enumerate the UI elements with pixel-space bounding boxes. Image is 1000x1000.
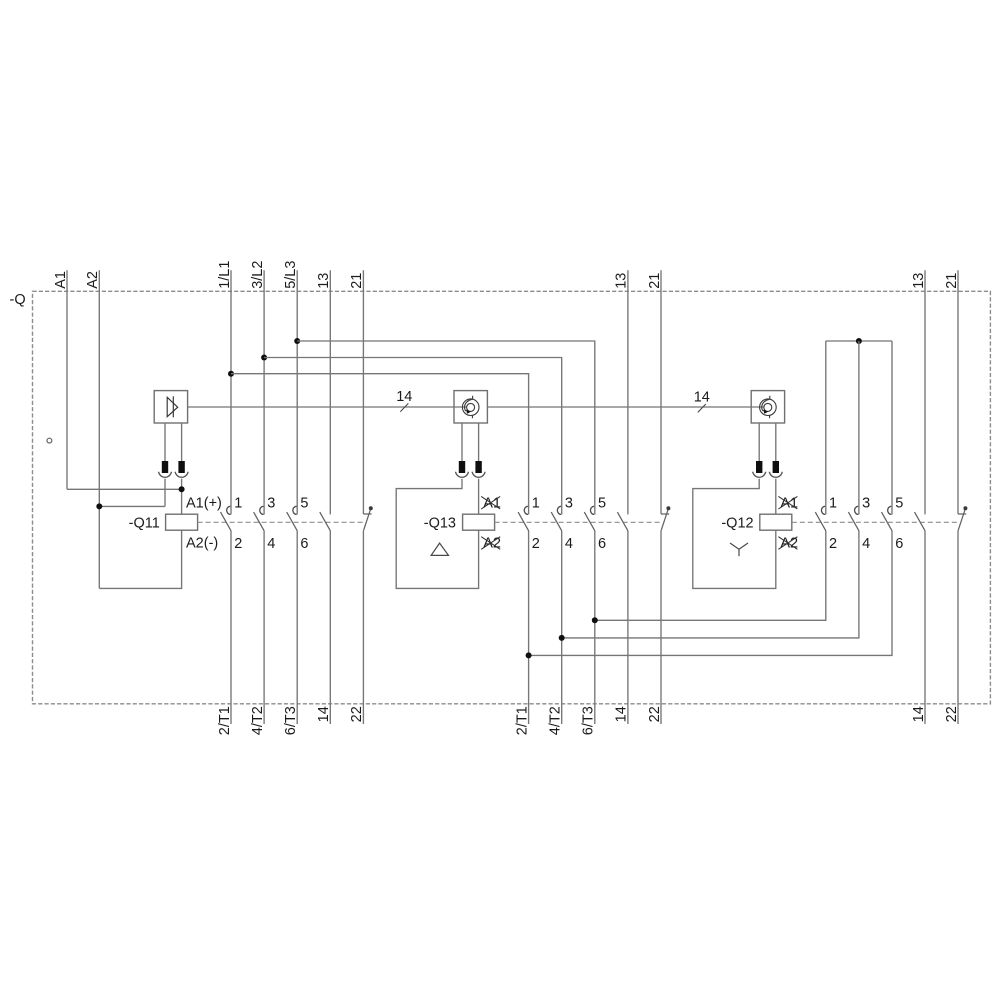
plug connector Q13 right	[475, 461, 481, 473]
Q11 main contact pole 1-2	[227, 506, 231, 514]
node junction on 1/L1	[228, 371, 234, 377]
svg-text:2: 2	[234, 536, 242, 552]
mechanical linkage Q11	[198, 521, 365, 523]
Q12 main contact pole 3-4	[855, 506, 859, 514]
node junction on A2	[96, 503, 102, 509]
Q11 bottom terminal line 14	[329, 531, 331, 724]
Q12 bottom terminal line 14	[924, 531, 926, 724]
Q13 main contact pole 1-2	[524, 506, 528, 514]
wire A2 loop around coil Q13	[396, 479, 478, 589]
plug connector Q13 left	[459, 461, 465, 473]
terminal line 13 of Q11	[329, 270, 331, 514]
Q12 main contact pole 5-6	[888, 506, 892, 514]
electronic drive symbol Q12	[760, 396, 777, 418]
wire A2 loop around coil Q12	[693, 479, 776, 589]
mechanical linkage Q12	[792, 521, 959, 523]
diode symbol	[167, 396, 178, 417]
node junction star bridge	[856, 338, 862, 344]
terminal line A1	[66, 270, 68, 489]
svg-text:1: 1	[532, 496, 540, 512]
Q13 main contact pole 3-4	[557, 506, 561, 514]
wire 14 from suppressor to Q13 coil module	[188, 406, 467, 408]
Q11 aux NC contact 21-22	[363, 513, 371, 515]
terminal line 21 of Q13	[660, 270, 662, 514]
Q12 aux NC contact 21-22	[958, 513, 966, 515]
wire A1 to coil Q13	[478, 479, 480, 515]
Q12 pole 1 top line	[825, 341, 827, 515]
node junction on 6/T3	[592, 617, 598, 623]
Q11 coil module lead right	[181, 423, 183, 461]
Q13 bottom terminal line 2/T1	[528, 531, 530, 724]
Q12 aux NO contact 13-14	[915, 512, 926, 531]
mounting point circle	[47, 438, 52, 443]
Q11 main contact pole 5-6	[293, 506, 297, 514]
svg-text:4: 4	[862, 536, 870, 552]
svg-text:1: 1	[829, 496, 837, 512]
Q11 bottom terminal line 22	[362, 531, 364, 724]
wire 5/L3 to Q13 pole 5	[297, 341, 595, 515]
terminal line 5/L3	[296, 270, 298, 514]
svg-text:14: 14	[694, 390, 710, 406]
node junction A1/coil	[179, 486, 185, 492]
svg-text:2/T1: 2/T1	[217, 706, 233, 735]
svg-text:6: 6	[598, 536, 606, 552]
svg-text:4/T2: 4/T2	[250, 706, 266, 735]
plug connector Q11 right	[178, 461, 184, 473]
wire Q12 pole 6 to 2/T1	[529, 531, 892, 656]
Q11 coil module lead left	[164, 423, 166, 461]
wire A1 to coil Q12	[775, 479, 777, 515]
terminal line 13 of Q13	[627, 270, 629, 514]
svg-text:14: 14	[396, 389, 412, 405]
svg-text:1: 1	[234, 496, 242, 512]
terminal line 1/L1	[230, 270, 232, 514]
svg-text:-Q12: -Q12	[721, 515, 753, 531]
svg-text:1/L1: 1/L1	[217, 261, 233, 289]
plug connector Q11 left	[162, 461, 168, 473]
svg-text:4/T2: 4/T2	[548, 706, 564, 735]
svg-text:21: 21	[349, 273, 365, 289]
svg-text:A2: A2	[85, 271, 101, 289]
svg-text:-Q11: -Q11	[129, 515, 160, 531]
svg-text:A1: A1	[53, 271, 69, 289]
Q12 pole 5 top line	[891, 341, 893, 515]
wire A2 loop under coil Q11	[99, 530, 181, 588]
svg-text:A1(+): A1(+)	[186, 495, 222, 511]
terminal line 21 of Q12	[957, 270, 959, 514]
svg-text:A2(-): A2(-)	[186, 536, 218, 552]
plug connector Q12 right	[773, 461, 779, 473]
Q12 coil module lead left	[758, 423, 760, 461]
Q12 pole 3 top line	[858, 341, 860, 515]
wire 3/L2 to Q13 pole 3	[264, 358, 562, 515]
surge suppressor module on Q11 coil	[154, 391, 187, 423]
svg-text:6: 6	[895, 536, 903, 552]
svg-text:2/T1: 2/T1	[514, 706, 530, 735]
node junction on 4/T2	[559, 635, 565, 641]
svg-text:14: 14	[614, 706, 630, 722]
svg-text:3: 3	[565, 496, 573, 512]
node junction on 5/L3	[294, 338, 300, 344]
plug connector Q12 left	[756, 461, 762, 473]
terminal line 21 of Q11	[362, 270, 364, 514]
svg-text:21: 21	[944, 273, 960, 289]
svg-text:5: 5	[895, 496, 903, 512]
svg-text:13: 13	[316, 273, 332, 289]
svg-text:5: 5	[300, 496, 308, 512]
svg-text:5: 5	[598, 496, 606, 512]
terminal line A2	[98, 270, 100, 588]
dashed enclosure border of assembly -Q	[33, 291, 991, 704]
Q13 main contact pole 5-6	[590, 506, 594, 514]
svg-text:22: 22	[647, 706, 663, 722]
svg-text:3: 3	[267, 496, 275, 512]
mechanical linkage Q13	[495, 521, 663, 523]
Q12 bottom terminal line 22	[957, 531, 959, 724]
wire 1/L1 to Q13 pole 1	[231, 374, 529, 515]
svg-text:22: 22	[944, 706, 960, 722]
delta symbol	[431, 543, 448, 555]
wire A1 to coil Q11	[67, 488, 182, 490]
wire Q12 pole 2 to 6/T3	[595, 531, 826, 620]
Q13 coil drive module	[454, 391, 487, 423]
node junction on 3/L2	[261, 355, 267, 361]
svg-text:3: 3	[862, 496, 870, 512]
svg-text:6: 6	[300, 536, 308, 552]
star-point bridge wire Q12	[826, 340, 892, 342]
svg-text:14: 14	[316, 706, 332, 722]
coil contactor -Q11	[166, 514, 198, 530]
svg-text:3/L2: 3/L2	[250, 261, 266, 289]
svg-text:4: 4	[565, 536, 573, 552]
svg-text:21: 21	[647, 273, 663, 289]
wire Q12 pole 4 to 4/T2	[562, 531, 859, 638]
Q13 bottom terminal line 14	[627, 531, 629, 724]
Q13 aux NC contact 21-22	[661, 513, 669, 515]
Q11 bottom terminal line 6/T3	[296, 531, 298, 724]
svg-text:5/L3: 5/L3	[283, 261, 299, 289]
terminal line 13 of Q12	[924, 270, 926, 514]
svg-text:-Q13: -Q13	[424, 515, 456, 531]
Q13 coil module lead left	[461, 423, 463, 461]
wire 14 from Q13 module to Q12 module	[487, 406, 764, 408]
star symbol	[730, 543, 748, 556]
electronic drive symbol Q13	[462, 396, 479, 418]
svg-text:-Q: -Q	[10, 292, 26, 308]
svg-text:14: 14	[911, 706, 927, 722]
svg-text:13: 13	[911, 273, 927, 289]
coil contactor -Q13	[463, 514, 495, 530]
svg-text:2: 2	[829, 536, 837, 552]
svg-text:6/T3: 6/T3	[581, 706, 597, 735]
coil contactor -Q12	[760, 514, 792, 530]
Q12 coil module lead right	[775, 423, 777, 461]
svg-text:13: 13	[614, 273, 630, 289]
Q12 main contact pole 1-2	[821, 506, 825, 514]
Q11 bottom terminal line 4/T2	[263, 531, 265, 724]
svg-text:6/T3: 6/T3	[283, 706, 299, 735]
svg-text:22: 22	[349, 706, 365, 722]
svg-text:4: 4	[267, 536, 275, 552]
Q13 coil module lead right	[478, 423, 480, 461]
Q11 main contact pole 3-4	[260, 506, 264, 514]
svg-text:2: 2	[532, 536, 540, 552]
Q12 coil drive module	[751, 391, 784, 423]
terminal line 3/L2	[263, 270, 265, 514]
node junction on 2/T1	[526, 652, 532, 658]
Q11 bottom terminal line 2/T1	[230, 531, 232, 724]
Q11 aux NO contact 13-14	[320, 512, 331, 531]
Q13 bottom terminal line 22	[660, 531, 662, 724]
Q13 aux NO contact 13-14	[617, 512, 628, 531]
Q13 bottom terminal line 6/T3	[594, 531, 596, 724]
wire A2 to plug connector	[99, 505, 165, 507]
Q13 bottom terminal line 4/T2	[561, 531, 563, 724]
